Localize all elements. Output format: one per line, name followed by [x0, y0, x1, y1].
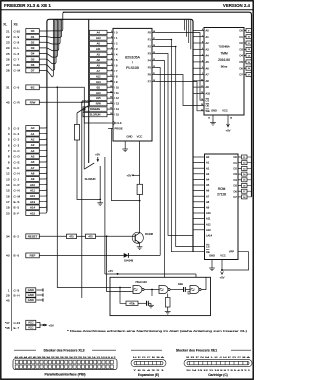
diode D1 1N4148 [124, 253, 129, 258]
switch SLORUN [84, 163, 94, 169]
U3 GND stub [211, 260, 213, 267]
ground under U2 [210, 121, 216, 126]
svg-text:*47: *47 [5, 321, 10, 325]
svg-text:D6: D6 [31, 63, 35, 67]
U2 GND stub [212, 115, 214, 121]
svg-text:A0: A0 [31, 126, 35, 130]
svg-text:C- 2: C- 2 [14, 138, 20, 142]
svg-text:A8: A8 [31, 172, 35, 176]
svg-text:A12: A12 [96, 74, 101, 78]
svg-text:12: 12 [153, 66, 155, 68]
svg-text:E- 6: E- 6 [14, 254, 20, 258]
svg-text:A10: A10 [206, 92, 211, 96]
svg-text:A11: A11 [96, 47, 101, 51]
address bus spine up-right-down [47, 19, 193, 252]
svg-text:WE: WE [206, 109, 210, 113]
wire SLORUN switch to pulldown [99, 166, 101, 200]
svg-text:90ns: 90ns [221, 65, 228, 69]
gate G1 (74HC132 schmitt NAND) [133, 286, 142, 294]
U3 data pin D6 with pin box [238, 190, 242, 192]
wire F5 down to REF/diode line [157, 68, 161, 256]
svg-text:2: 2 [111, 69, 112, 71]
svg-text:17: 17 [6, 200, 10, 204]
capacitor C2 [183, 287, 185, 292]
svg-text:D6: D6 [239, 66, 243, 70]
svg-text:A8: A8 [206, 200, 210, 204]
+5V arrow [45, 324, 48, 327]
U3 pin A8 [193, 201, 205, 203]
U1 input I5 (A8) pin 4 [90, 58, 108, 62]
transistor Q1 BC238 [132, 232, 143, 243]
svg-text:VCC: VCC [137, 135, 143, 139]
wire G3 out up to box top [201, 277, 206, 289]
U2 pin 22 (A9) [193, 86, 204, 88]
svg-text:D0: D0 [233, 155, 237, 159]
U2 pin 6 (A2) [193, 42, 204, 44]
svg-text:Stecker des Freezers XE1: Stecker des Freezers XE1 [176, 349, 217, 353]
junction collector node [139, 200, 141, 202]
svg-text:C- M: C- M [14, 194, 21, 198]
svg-text:26: 26 [6, 57, 10, 61]
svg-text:C-13: C-13 [14, 321, 21, 325]
svg-text:CLK: CLK [117, 121, 122, 125]
svg-text:XL: XL [3, 23, 7, 27]
svg-text:FREEZER XL3 & XE 1: FREEZER XL3 & XE 1 [4, 3, 51, 8]
Expansion connector body [131, 360, 166, 367]
wire F4 down to 74HC132 box [157, 61, 165, 278]
svg-text:11: 11 [153, 73, 155, 75]
svg-text:C- P: C- P [14, 183, 20, 187]
svg-text:A11: A11 [206, 217, 211, 221]
ground freeze/slorun [97, 201, 103, 206]
switch FREEZE [77, 106, 88, 113]
svg-text:E- 7: E- 7 [14, 326, 20, 330]
wire PR/OE feed [112, 128, 140, 200]
svg-text:D7: D7 [31, 69, 35, 73]
junction U3 vcc/vpp [221, 269, 223, 271]
svg-text:C- 9: C- 9 [14, 35, 20, 39]
U2 pin 23 (A8) [193, 80, 204, 82]
svg-text:+5V: +5V [108, 269, 113, 273]
junction RESET branch [106, 235, 108, 237]
wire C2 to G3 [185, 289, 190, 291]
resistor R freeze pulldown [74, 125, 79, 141]
svg-text:E- F: E- F [14, 211, 20, 215]
svg-text:34: 34 [6, 235, 10, 239]
U3 pin A1 [193, 162, 205, 164]
wire F3 to ROM LA14 [157, 54, 194, 236]
svg-text:I 12: I 12 [115, 96, 120, 100]
U2 data pin D2 with pin box [244, 42, 246, 44]
svg-text:1: 1 [202, 73, 203, 75]
U3 VPP wire to +5V [222, 252, 249, 270]
svg-text:SLORUN: SLORUN [85, 177, 96, 181]
svg-text:E- 5: E- 5 [14, 206, 20, 210]
svg-text:+5V: +5V [49, 323, 54, 327]
svg-text:* Diese Anschlüsse erfordern e: * Diese Anschlüsse erfordern eine Nachrü… [67, 329, 247, 333]
wire F1 to ROM OE [157, 40, 205, 252]
ground R6 [165, 310, 171, 315]
wire G2 out to C2 [170, 289, 183, 291]
wire GND row 29 [37, 294, 44, 296]
svg-text:A10: A10 [30, 183, 36, 187]
Q1 base bar [134, 234, 136, 241]
svg-text:20: 20 [6, 211, 10, 215]
svg-text:A2: A2 [206, 166, 210, 170]
U2 data pin D0 with pin box [244, 29, 246, 31]
svg-text:PLS105: PLS105 [126, 66, 139, 70]
wire U3 data boxes to right bus [247, 156, 252, 158]
svg-text:4: 4 [202, 54, 203, 56]
svg-text:24: 24 [230, 118, 232, 120]
svg-text:A7: A7 [31, 166, 35, 170]
U2 pin 19 (A10) [193, 92, 204, 94]
svg-text:+5V: +5V [126, 173, 131, 177]
wire VCC join 2 [37, 325, 41, 328]
ground under U3 [209, 266, 215, 271]
svg-text:27: 27 [6, 63, 10, 67]
wire D1 to data bus [39, 19, 63, 37]
svg-text:A4: A4 [31, 149, 35, 153]
U2 pin 2 (A6) [193, 67, 204, 69]
table divider line [11, 20, 13, 331]
junction R/W branch [81, 101, 83, 103]
svg-text:22: 22 [110, 102, 112, 104]
svg-text:E- S: E- S [14, 200, 20, 204]
svg-text:TMM: TMM [220, 52, 228, 56]
U3 pin A13 [193, 229, 205, 231]
svg-text:I 11: I 11 [115, 91, 120, 95]
wire R4 to Q1 base [96, 235, 136, 237]
IC U3 ROM 27128 body [205, 154, 239, 260]
svg-text:H F D C E B A: H F D C E B A [133, 356, 166, 359]
U3 data pin D3 with pin box [238, 173, 242, 175]
wire to R5 [120, 288, 126, 304]
svg-text:21: 21 [110, 108, 112, 110]
svg-text:D1: D1 [31, 35, 35, 39]
svg-text:12: 12 [6, 172, 10, 176]
svg-text:C- E: C- E [14, 160, 20, 164]
gnd tick 45 [42, 298, 44, 301]
U1 input I15 (SLORUN) pin 20 [83, 112, 107, 116]
U3 pin A10 [193, 212, 205, 214]
wire REF line [39, 254, 123, 256]
svg-text:C- D: C- D [14, 155, 21, 159]
wire R/W to U1 I13 box [39, 101, 89, 103]
svg-text:D7: D7 [233, 195, 237, 199]
svg-text:D6: D6 [233, 189, 237, 193]
U1 CLK pin [108, 122, 113, 124]
svg-text:5: 5 [111, 53, 112, 55]
address feeder elbow 0 [184, 20, 186, 31]
U3 data pin D7 with pin box [238, 196, 242, 198]
svg-text:A9: A9 [31, 177, 35, 181]
svg-text:13: 13 [6, 177, 10, 181]
svg-text:23: 23 [201, 80, 203, 82]
svg-text:24: 24 [6, 46, 10, 50]
wire F6 to RAM OE [157, 75, 205, 106]
wire freeze resistor bottom to ground rail [77, 140, 100, 200]
svg-text:XE: XE [14, 23, 18, 27]
svg-text:A7: A7 [206, 73, 210, 77]
U2 pin 7 (A1) [193, 36, 204, 38]
U3 pin A11 [193, 218, 205, 220]
svg-text:A14: A14 [96, 80, 101, 84]
U3 data pin D4 with pin box [238, 179, 242, 181]
svg-text:1N4148: 1N4148 [124, 259, 134, 263]
svg-text:4: 4 [111, 58, 112, 60]
U2 VCC stub [227, 115, 229, 127]
svg-text:C- F: C- F [14, 166, 20, 170]
svg-text:12: 12 [208, 118, 210, 120]
junction ground rail [99, 199, 101, 201]
svg-text:6: 6 [202, 42, 203, 44]
title underline [2, 9, 253, 11]
svg-text:C- R: C- R [14, 101, 21, 105]
U3 pin A2 [193, 167, 205, 169]
svg-text:+5V: +5V [95, 153, 100, 157]
svg-text:OE: OE [206, 250, 210, 254]
svg-text:GND: GND [209, 254, 215, 258]
svg-text:D2: D2 [239, 41, 243, 45]
svg-text:45: 45 [6, 298, 10, 302]
wire F0 to RAM CS [157, 33, 205, 101]
node +5V / pullup [132, 174, 134, 176]
svg-text:/: / [132, 61, 133, 65]
U2 pin 5 (A3) [193, 48, 204, 50]
svg-text:C- 6: C- 6 [14, 86, 20, 90]
corner F2 [175, 46, 177, 48]
wire R3 to R4 [77, 235, 86, 237]
svg-text:+5V: +5V [225, 129, 230, 133]
svg-text:23: 23 [110, 97, 112, 99]
gnd tick 1 [42, 288, 44, 291]
U1 input I11 (A10) pin 24 [90, 90, 108, 94]
svg-text:D5: D5 [233, 184, 237, 188]
svg-text:C- 3: C- 3 [14, 143, 20, 147]
wire SLORUN input down to switch [83, 115, 85, 170]
svg-text:19: 19 [201, 92, 203, 94]
wire F2 to ROM CS [157, 47, 205, 247]
svg-text:FREEZE: FREEZE [90, 107, 101, 111]
svg-text:A8: A8 [97, 58, 101, 62]
wire phi2 down to gate1 input A [57, 87, 131, 287]
svg-text:7: 7 [202, 35, 203, 37]
svg-text:9: 9 [111, 31, 112, 33]
node +5V tap [43, 324, 45, 326]
U3 data pin D1 with pin box [238, 162, 242, 164]
svg-text:16: 16 [153, 45, 155, 47]
svg-text:Cartridge (C): Cartridge (C) [208, 373, 227, 377]
svg-text:7: 7 [111, 42, 112, 44]
XL3 connector title [14, 349, 36, 351]
Cartridge connector body [184, 360, 252, 367]
svg-text:I 13: I 13 [115, 102, 120, 106]
svg-text:11: 11 [6, 166, 9, 170]
svg-text:15: 15 [6, 189, 10, 193]
wire GND row 1 [37, 289, 44, 291]
wire D0 to data bus [39, 12, 64, 31]
svg-text:C-10: C-10 [14, 29, 21, 33]
U1 input I9 (A14) pin 26 [90, 80, 108, 84]
svg-text:GND: GND [28, 288, 34, 292]
IC U2 TMM2016 RAM body [204, 28, 244, 116]
svg-text:SLORUN: SLORUN [90, 113, 101, 117]
node +5V rail [117, 273, 119, 275]
svg-text:A5: A5 [31, 155, 35, 159]
svg-text:3: 3 [111, 64, 112, 66]
svg-text:24: 24 [110, 91, 112, 93]
svg-text:I 14: I 14 [115, 107, 120, 111]
wire G2 in stub [151, 290, 153, 297]
svg-text:VCC: VCC [28, 321, 34, 325]
U1 input I8 (A12) pin 27 [90, 74, 108, 78]
svg-text:VCC: VCC [28, 326, 34, 330]
svg-text:A11: A11 [30, 189, 35, 193]
ground under U1 [122, 147, 128, 152]
svg-text:A7: A7 [97, 69, 101, 73]
U1 input I13 (R/W) pin 22 [90, 101, 108, 105]
XL3 connector body (PBI) [13, 359, 117, 370]
svg-text:28: 28 [6, 69, 10, 73]
wire resistor to BC238 collector [139, 195, 141, 233]
wire +5V rail [105, 273, 196, 275]
wire F7 to RAM WE [157, 82, 205, 111]
U2 pin 8 (A0) [193, 29, 204, 31]
svg-text:Φ2: Φ2 [31, 86, 35, 90]
svg-text:A13: A13 [30, 200, 36, 204]
U1 output F6 pin 11 [152, 74, 157, 76]
svg-text:29: 29 [6, 293, 10, 297]
svg-text:18: 18 [153, 31, 155, 33]
svg-text:Stecker des Freezers XL3: Stecker des Freezers XL3 [43, 349, 84, 353]
svg-text:17: 17 [153, 38, 155, 40]
svg-text:S R P N M L K J H F D C B A: S R P N M L K J H F D C B A [186, 356, 252, 359]
U1 input I6 (A9) pin 3 [90, 63, 108, 67]
address bus: riser from A0-A15 rows [39, 126, 47, 128]
svg-text:22: 22 [201, 86, 203, 88]
wire +5V stub [97, 157, 99, 161]
U2 data pin D7 with pin box [244, 74, 246, 76]
ground C1 [148, 303, 154, 308]
svg-text:D2: D2 [233, 167, 237, 171]
gnd tick 29 [42, 293, 44, 296]
gate G3 (74HC132 schmitt NAND) [190, 286, 199, 294]
wire RESET to R3 [39, 235, 66, 237]
svg-text:VERSION 2.4: VERSION 2.4 [223, 3, 251, 8]
svg-text:A3: A3 [206, 47, 210, 51]
U1 output F2 pin 16 [152, 46, 157, 48]
U2 data pin D4 with pin box [244, 55, 246, 57]
wire G1 out to G2 in [144, 289, 159, 291]
svg-text:Φ2: Φ2 [96, 85, 100, 89]
wire R5 to C1 [138, 302, 147, 304]
svg-text:+5V: +5V [219, 276, 224, 280]
svg-text:D2: D2 [31, 40, 35, 44]
svg-text:A12: A12 [30, 194, 36, 198]
U1 GND pin stub [124, 141, 126, 147]
address feeder elbow 1 [186, 20, 188, 37]
svg-text:D0: D0 [239, 29, 243, 33]
svg-text:22: 22 [6, 35, 10, 39]
U3 data pin D0 with pin box [238, 156, 242, 158]
svg-text:A0: A0 [206, 29, 210, 33]
address feeder elbow 3 [190, 20, 192, 50]
svg-text:14: 14 [6, 183, 10, 187]
svg-text:15: 15 [153, 52, 155, 54]
svg-text:A7: A7 [206, 194, 210, 198]
U1 input I12 (A15) pin 23 [90, 96, 108, 100]
svg-text:C- 8: C- 8 [14, 41, 20, 45]
Q1 emitter [135, 240, 139, 245]
U2 pin 4 (A4) [193, 55, 204, 57]
U1 input I14 (FREEZE) pin 21 [83, 107, 107, 111]
resistor R6 vertical [165, 298, 170, 308]
U3 data pin D5 with pin box [238, 185, 242, 187]
wire D3 to data bus [39, 19, 60, 50]
wire D7 to data bus [39, 19, 55, 76]
U1 input I10 (Φ2) pin 25 [90, 85, 108, 89]
svg-text:20: 20 [110, 113, 112, 115]
XE1 connector title [131, 349, 162, 351]
U1 VCC pin stub wire down to +5V node [139, 141, 141, 184]
U3 VCC stub to +5V [221, 260, 223, 271]
svg-text:TOSHIBA: TOSHIBA [218, 45, 230, 49]
svg-text:470: 470 [69, 235, 74, 238]
U1 output F4 pin 13 [152, 60, 157, 62]
svg-text:A6: A6 [97, 42, 101, 46]
svg-text:A10: A10 [96, 91, 101, 95]
svg-text:5: 5 [202, 48, 203, 50]
svg-text:CS: CS [206, 245, 210, 249]
svg-text:A2: A2 [31, 138, 35, 142]
U2 pin 1 (A7) [193, 74, 204, 76]
svg-text:R/W: R/W [96, 102, 102, 106]
svg-text:Expansion (E): Expansion (E) [138, 373, 159, 377]
svg-text:A4: A4 [97, 31, 101, 35]
svg-text:A6: A6 [206, 66, 210, 70]
svg-text:C- C: C- C [14, 149, 21, 153]
svg-text:A3: A3 [31, 143, 35, 147]
wire diode out to F5 drop [128, 254, 160, 256]
svg-text:E- 2: E- 2 [14, 235, 20, 239]
U3 pin A9 [193, 206, 205, 208]
svg-text:D3: D3 [239, 47, 243, 51]
svg-text:I 15: I 15 [115, 113, 120, 117]
svg-text:470: 470 [88, 235, 93, 238]
svg-text:A5: A5 [97, 52, 101, 56]
svg-text:VCC: VCC [222, 109, 228, 113]
svg-text:CS: CS [206, 98, 210, 102]
U1 input I1 (A13) pin 8 [90, 36, 108, 40]
svg-text:D1: D1 [239, 35, 243, 39]
svg-text:R/W: R/W [30, 101, 36, 105]
svg-text:D3: D3 [233, 172, 237, 176]
wire D2 to data bus [39, 19, 62, 44]
U1 output F7 pin 10 [152, 81, 157, 83]
wire freeze switch to resistor [76, 113, 78, 125]
U3 pin A3 [193, 173, 205, 175]
U1 input I3 (A11) pin 6 [90, 47, 108, 51]
wire G1 in B [131, 291, 133, 293]
wire +5V rail down to 74HC132 box [104, 157, 106, 274]
svg-text:C-11: C-11 [14, 63, 21, 67]
svg-text:A13: A13 [96, 36, 101, 40]
svg-text:A4: A4 [206, 178, 210, 182]
svg-text:27: 27 [110, 75, 112, 77]
svg-text:VPP: VPP [229, 250, 234, 254]
svg-text:23: 23 [6, 41, 10, 45]
